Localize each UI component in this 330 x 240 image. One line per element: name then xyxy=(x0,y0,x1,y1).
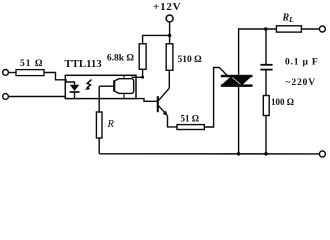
svg-text:0.1 µ F: 0.1 µ F xyxy=(285,58,319,68)
node collector junction xyxy=(141,76,144,79)
wire 6.8k to collector node xyxy=(142,69,144,77)
resistor 6.8k xyxy=(139,44,146,70)
transistor Q1 base bar xyxy=(157,96,159,112)
output terminal bottom xyxy=(319,151,325,157)
phototransistor envelope xyxy=(115,79,134,94)
optocoupler U1 TTL113 box xyxy=(65,75,136,98)
wire triac top to rail xyxy=(239,29,277,75)
wire RL to output terminal xyxy=(301,28,319,30)
wire R to bottom rail xyxy=(98,138,100,154)
resistor 100 ohm xyxy=(263,96,269,116)
svg-text:51 Ω: 51 Ω xyxy=(20,59,43,69)
wire triac bottom to rail xyxy=(238,87,240,154)
node snubber bottom xyxy=(264,152,268,156)
capacitor C 0.1uF xyxy=(260,65,272,70)
svg-text:+12V: +12V xyxy=(153,1,181,13)
wire collector to 6.8k xyxy=(132,76,143,78)
wire emitter to 51 ohm gate xyxy=(168,116,178,127)
input terminal top xyxy=(3,70,9,76)
node triac bottom xyxy=(237,152,241,156)
svg-text:TTL113: TTL113 xyxy=(65,58,103,70)
LED diode inside optocoupler xyxy=(70,85,80,99)
bottom rail xyxy=(99,153,319,155)
node +12V branch xyxy=(168,34,172,38)
terminal +12V xyxy=(166,15,173,22)
transistor Q1 emitter arrow xyxy=(163,111,168,116)
wire rail to capacitor xyxy=(265,29,267,64)
resistor 510 xyxy=(166,44,173,71)
resistor R xyxy=(96,112,102,138)
resistor 51 ohm gate xyxy=(177,125,204,130)
wire 100 ohm to bottom rail xyxy=(265,116,267,154)
resistor RL xyxy=(276,26,301,32)
phototransistor collector stub xyxy=(123,75,125,78)
phototransistor emitter stub xyxy=(123,93,125,98)
wire input top to 51 ohm xyxy=(8,72,16,74)
transistor Q1 collector xyxy=(159,88,170,100)
svg-text:100 Ω: 100 Ω xyxy=(271,97,294,107)
light arrow xyxy=(85,80,92,90)
phototransistor base line xyxy=(99,85,113,87)
wire capacitor to 100 ohm xyxy=(265,70,267,96)
node snubber top xyxy=(264,27,268,31)
svg-text:6.8k Ω: 6.8k Ω xyxy=(107,54,135,64)
wire gate to triac xyxy=(204,68,227,128)
wire 51 ohm to LED anode xyxy=(44,73,75,85)
input terminal bottom xyxy=(3,94,9,100)
svg-text:RL: RL xyxy=(282,13,295,25)
wire +12V down xyxy=(169,22,171,44)
svg-text:51 Ω: 51 Ω xyxy=(181,114,199,124)
resistor 51 ohm input xyxy=(16,70,44,76)
output terminal top xyxy=(319,26,325,32)
phototransistor base bar xyxy=(113,80,115,91)
wire emitter to transistor base xyxy=(136,99,157,102)
wire input bottom to optocoupler xyxy=(8,96,65,98)
svg-text:R: R xyxy=(107,119,115,130)
svg-text:~220V: ~220V xyxy=(286,78,317,88)
svg-text:510 Ω: 510 Ω xyxy=(178,55,203,65)
triac VS xyxy=(221,75,253,87)
wire 510 to transistor collector xyxy=(168,70,170,88)
wire branch to 6.8k xyxy=(143,35,170,43)
transistor Q1 emitter xyxy=(159,106,167,114)
wire base down to resistor R xyxy=(98,86,100,112)
